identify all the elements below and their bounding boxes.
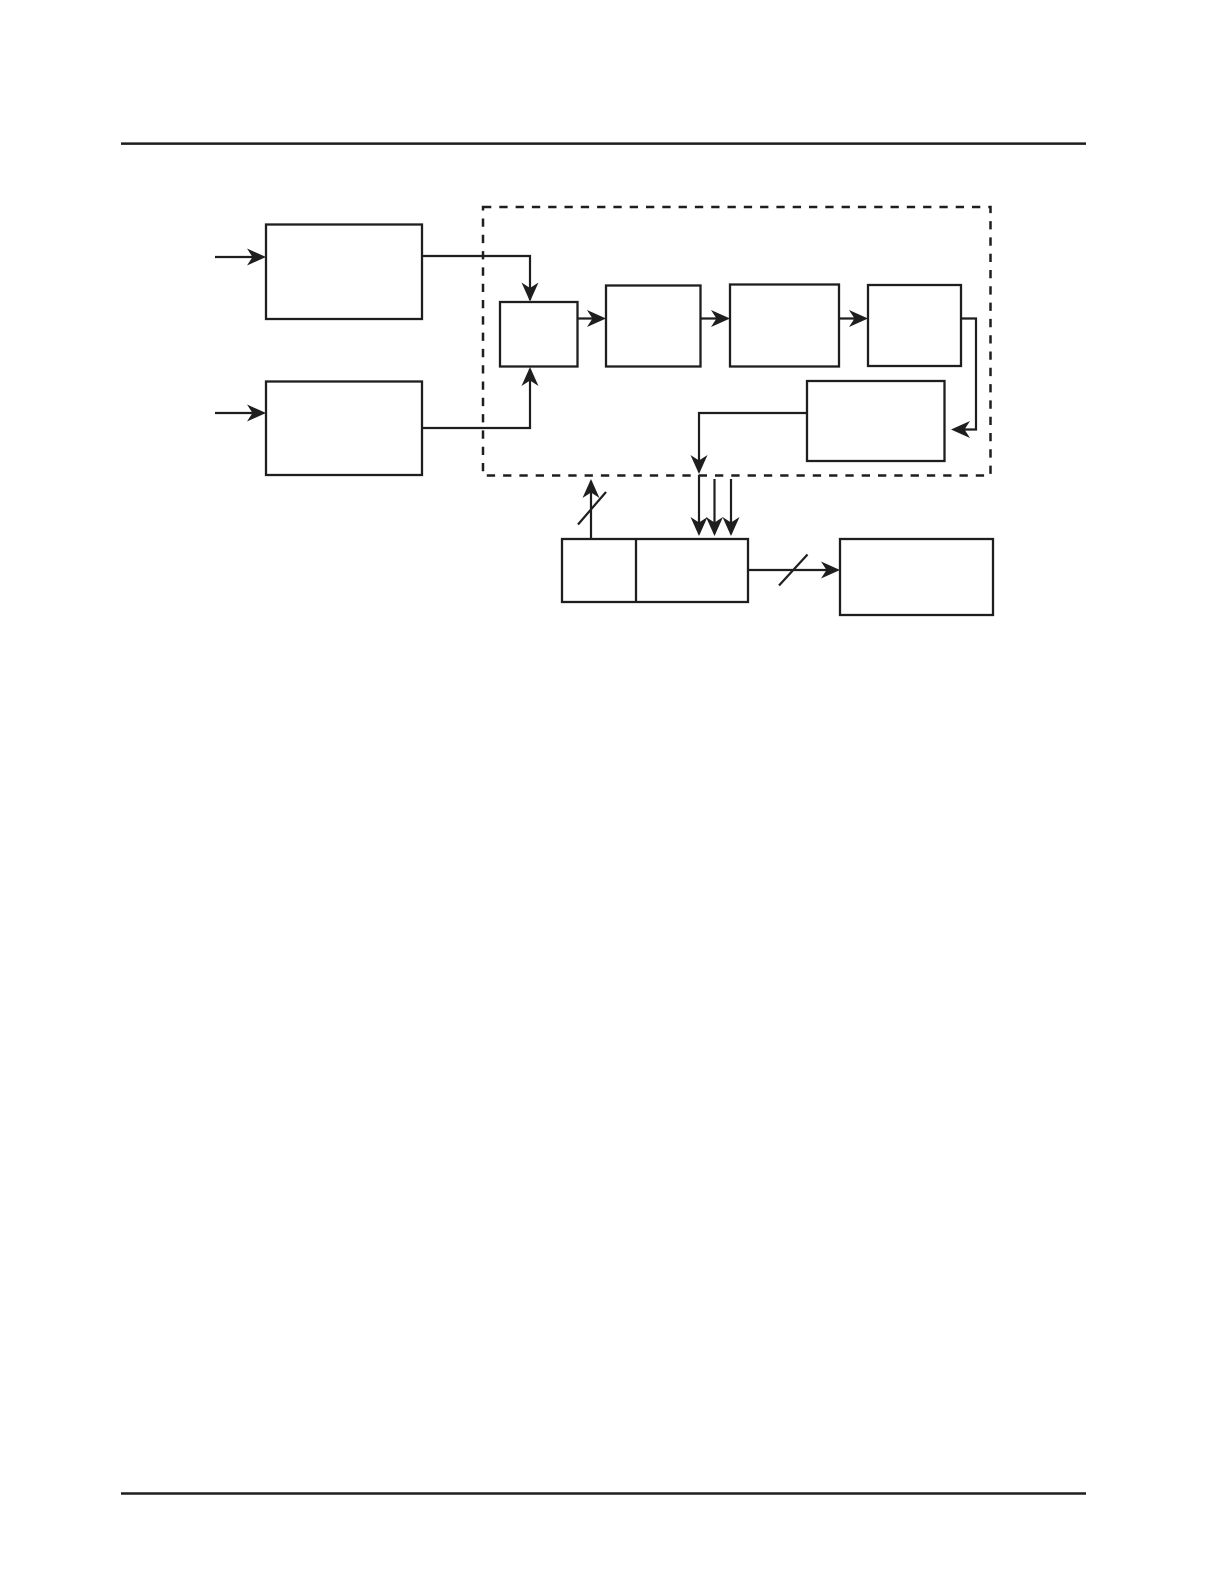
mixer block bbox=[500, 302, 578, 367]
arrow from block 3 to block 4 bbox=[701, 310, 731, 327]
arrow from block 4 to block 5 bbox=[839, 310, 868, 327]
wire from block 6 left and down to boundary bbox=[691, 413, 808, 474]
wire from block 2 up into mixer bottom bbox=[422, 367, 539, 428]
block 5 bbox=[868, 285, 961, 366]
block 4 bbox=[730, 285, 839, 367]
control line 3 into output register bbox=[723, 479, 740, 536]
dashed module boundary box bbox=[483, 207, 991, 476]
block 1 (upper-left input block) bbox=[266, 225, 422, 320]
block 6 (feedback block) bbox=[807, 381, 945, 461]
top rule bbox=[121, 142, 1086, 145]
control line 1 into output register bbox=[691, 475, 708, 536]
bus arrow from register to output block bbox=[748, 555, 840, 586]
block 3 bbox=[606, 286, 701, 367]
control line 2 into output register bbox=[706, 479, 723, 536]
bus arrow up from output register bbox=[578, 479, 606, 539]
wire from block 1 down into mixer top bbox=[422, 256, 539, 302]
register divider bbox=[635, 539, 637, 602]
output register block bbox=[562, 539, 748, 602]
block 2 (lower-left input block) bbox=[266, 382, 422, 476]
arrow from mixer to block 3 bbox=[578, 310, 607, 327]
input arrow into block 1 bbox=[215, 249, 266, 266]
input arrow into block 2 bbox=[215, 405, 266, 422]
wire from block 5 around into block 6 bbox=[951, 319, 976, 439]
final output block bbox=[840, 539, 993, 615]
bottom rule bbox=[121, 1492, 1086, 1495]
